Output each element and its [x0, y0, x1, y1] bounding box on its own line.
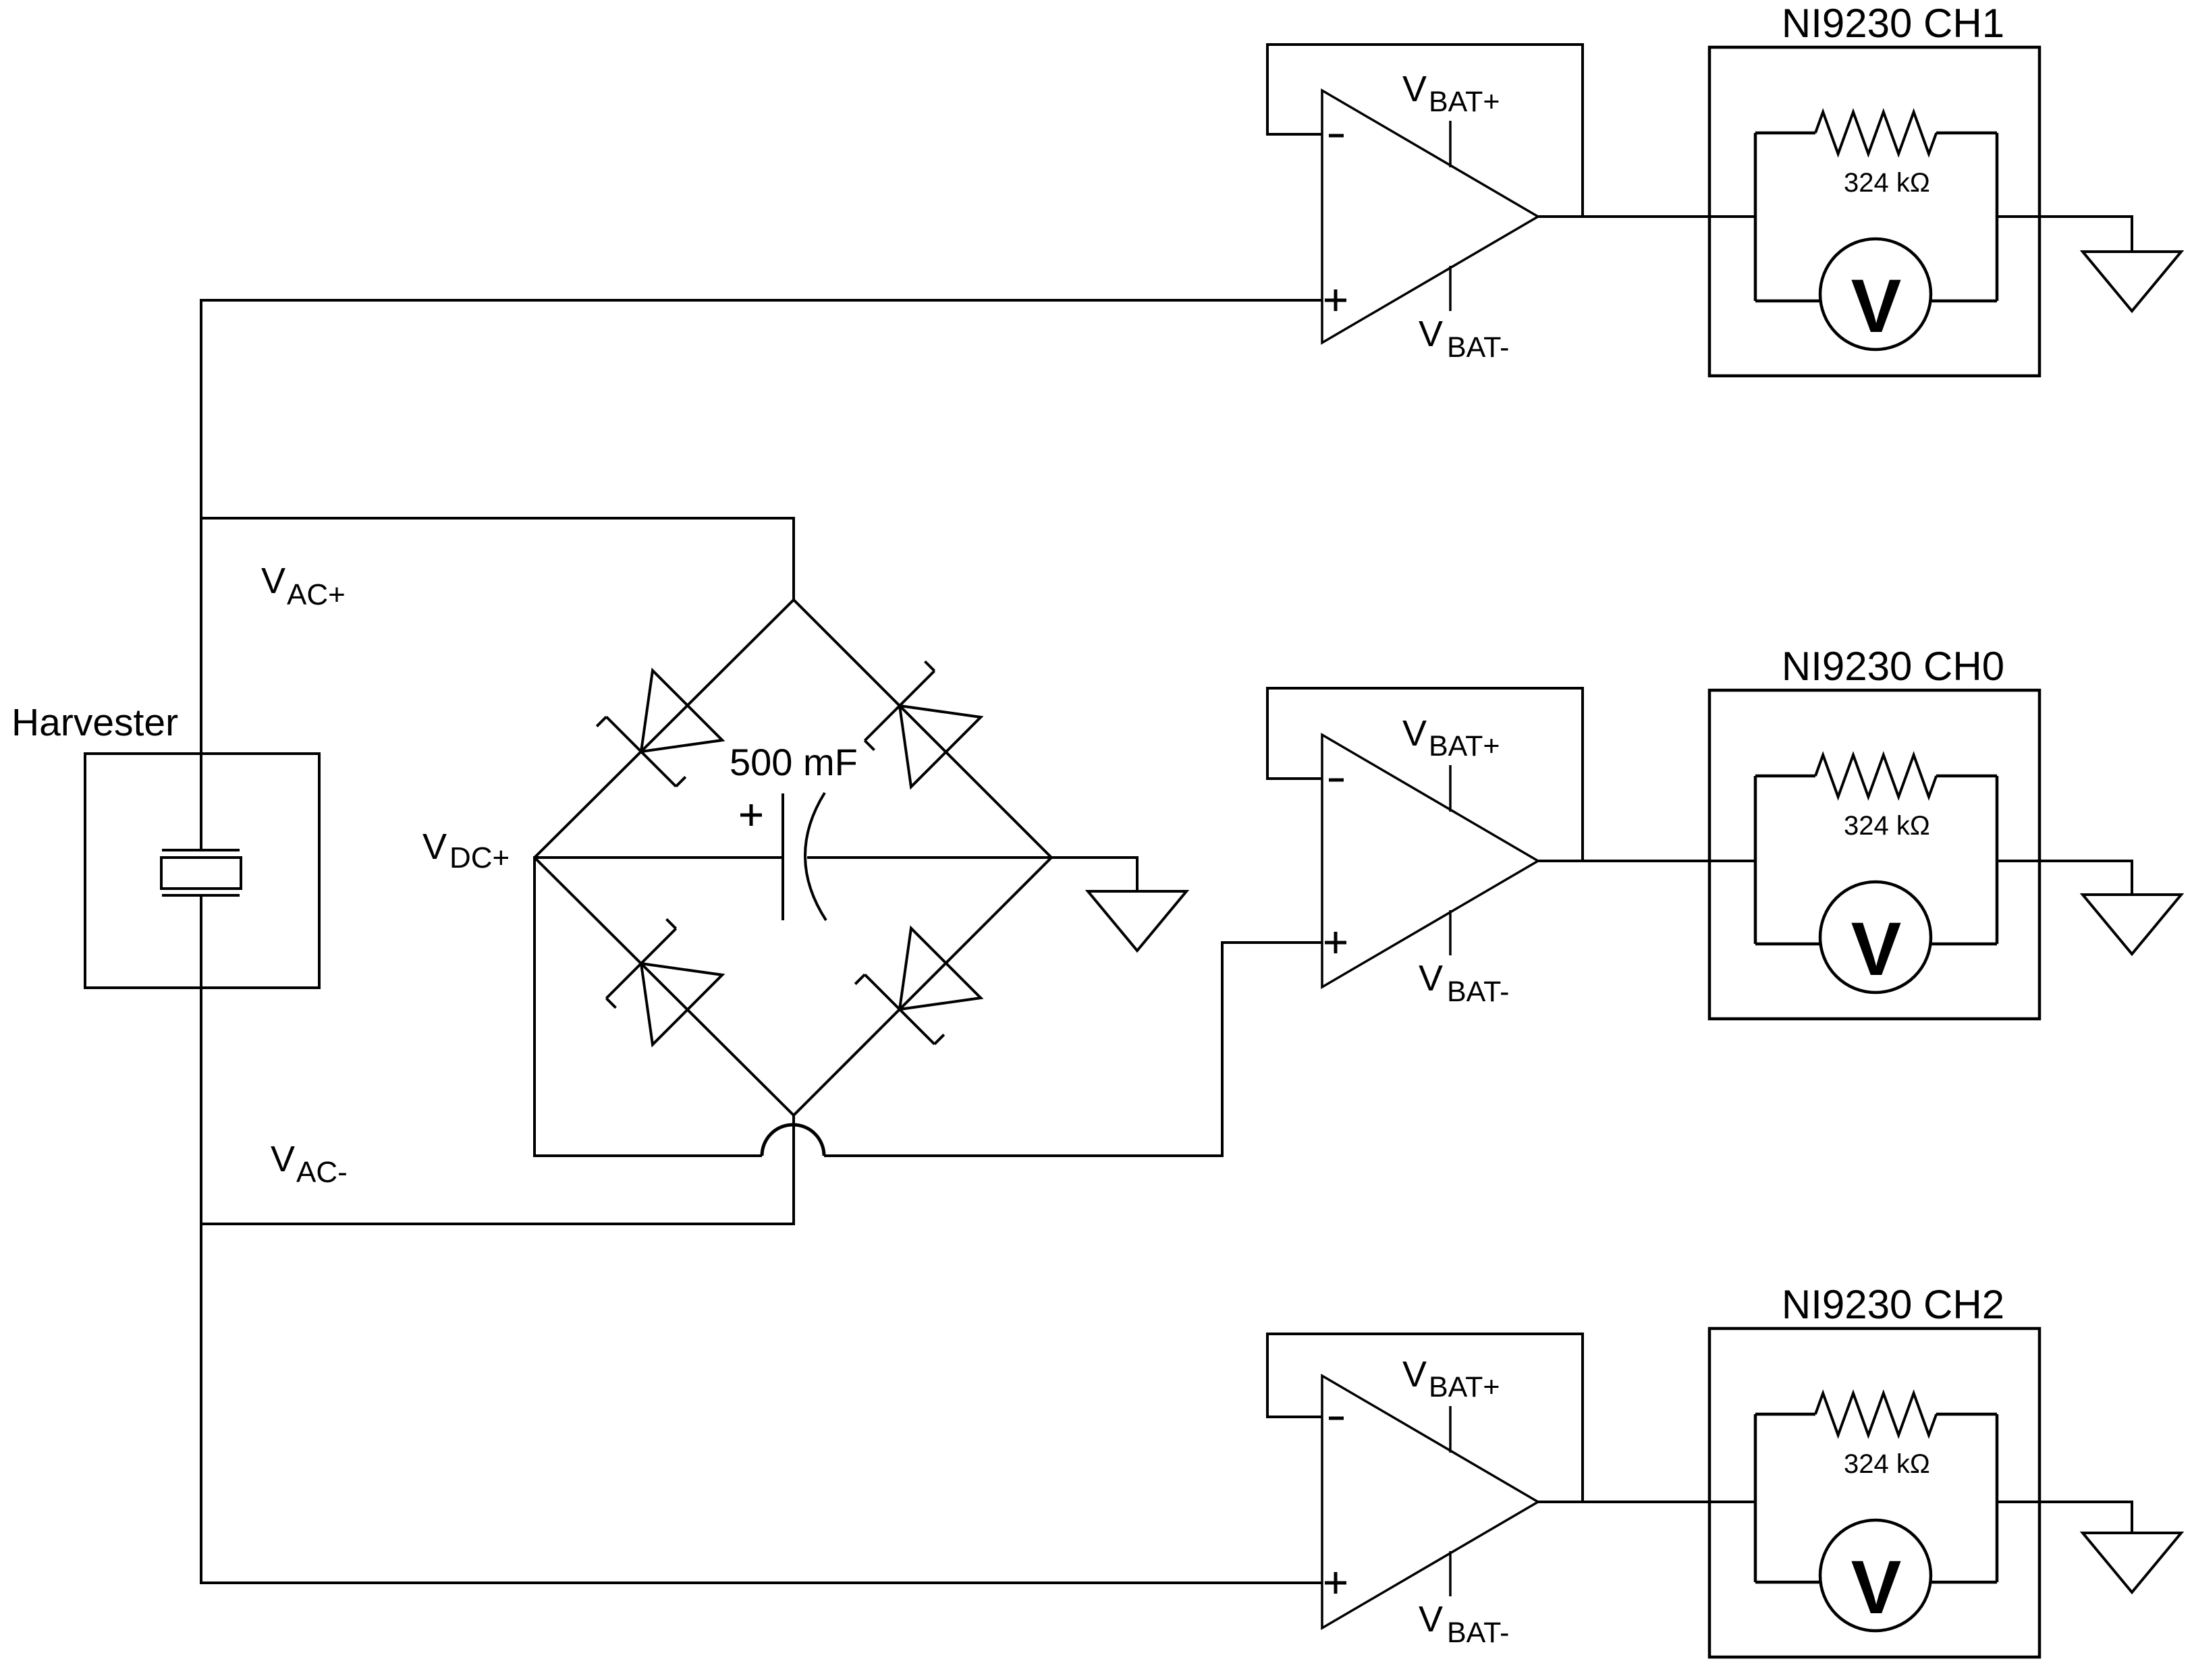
capacitor plus sign — [740, 814, 762, 817]
wire: U1 output — [1538, 215, 1755, 218]
capacitor C1 positive plate — [782, 793, 784, 920]
svg-text:V: V — [261, 561, 285, 601]
wire: NI9230 CH1 bottom branch right — [1930, 300, 1997, 303]
op-amp U3 VBAT- pin — [1449, 1551, 1452, 1596]
Harvester box — [85, 754, 319, 988]
wire: U3 inverting input — [1266, 1416, 1322, 1418]
op-amp U2 VBAT- pin — [1449, 910, 1452, 955]
wire: NI9230 CH0 output to ground — [1997, 860, 2133, 862]
svg-text:BAT+: BAT+ — [1429, 86, 1500, 118]
wire: NI9230 CH1 ground stub — [2131, 217, 2133, 252]
svg-text:324 kΩ: 324 kΩ — [1844, 1449, 1930, 1479]
op-amp U1 VBAT- pin — [1449, 266, 1452, 311]
wire: NI9230 CH0 ground stub — [2131, 861, 2133, 895]
wire: bridge diamond top-right arm — [794, 600, 1051, 858]
piezo element body — [161, 858, 241, 889]
op-amp U3 feedback loop — [1267, 1334, 1583, 1502]
svg-text:NI9230 CH0: NI9230 CH0 — [1782, 644, 2004, 689]
wire: drop from VAC+ branch to bridge top vertex — [792, 517, 795, 601]
op-amp U2 feedback loop — [1267, 688, 1583, 861]
ground symbol (NI9230 CH0) — [2083, 895, 2181, 954]
wire: NI9230 CH0 top branch left — [1755, 775, 1815, 778]
voltmeter V (NI9230 CH2) — [1820, 1520, 1931, 1631]
svg-text:V: V — [1402, 69, 1427, 109]
ground symbol near bridge — [1088, 891, 1186, 951]
wire: NI9230 CH2 top branch right — [1936, 1413, 1997, 1416]
wire: NI9230 CH0 bottom branch right — [1930, 943, 1997, 946]
wire: NI9230 CH1 bottom branch left — [1755, 300, 1821, 303]
wire: bridge right vertex to ground stub — [1051, 856, 1139, 859]
svg-text:NI9230 CH2: NI9230 CH2 — [1782, 1282, 2004, 1327]
op-amp U2 plus sign — [1325, 941, 1346, 945]
wire: bridge mid row left (VDC+ to capacitor) — [535, 856, 783, 859]
NI9230 CH2 inner node right — [1996, 1414, 1999, 1582]
wire: bridge diamond bottom-right arm — [794, 858, 1051, 1115]
wire: left column upper (VAC+ rail down to piezo) — [200, 299, 202, 849]
wire: bridge diamond bottom-left arm — [535, 858, 794, 1115]
svg-text:V: V — [1851, 264, 1902, 348]
wire: rail up to U2 + input level — [1221, 943, 1224, 1157]
zener diode D1 (top-left arm, points to VDC+) — [597, 671, 722, 796]
op-amp U1 triangle — [1322, 90, 1538, 343]
svg-text:AC-: AC- — [296, 1156, 348, 1189]
wire: VAC+ branch to bridge top — [201, 517, 794, 520]
piezo element (crystal) top plate — [162, 849, 240, 851]
svg-text:Harvester: Harvester — [11, 701, 178, 744]
wire: NI9230 CH0 bottom branch left — [1755, 943, 1821, 946]
svg-text:DC+: DC+ — [449, 841, 510, 874]
wire: VAC- branch from column to bridge bottom — [201, 1223, 794, 1225]
op-amp U2 triangle — [1322, 735, 1538, 987]
wire: ground stub down — [1136, 856, 1139, 891]
voltmeter V (NI9230 CH0) — [1820, 882, 1931, 992]
svg-text:V: V — [1402, 1354, 1427, 1395]
svg-text:BAT-: BAT- — [1447, 1617, 1509, 1649]
wire: VDC+ node down — [533, 856, 536, 1157]
op-amp U3 triangle — [1322, 1376, 1538, 1628]
capacitor C1 curved negative plate — [805, 793, 826, 920]
svg-text:V: V — [1402, 713, 1427, 754]
svg-text:V: V — [1419, 1599, 1443, 1640]
svg-text:V: V — [1419, 314, 1443, 354]
voltmeter V (NI9230 CH1) — [1820, 239, 1931, 349]
wire: U2 inverting input — [1266, 777, 1322, 780]
wire hop over bridge-bottom vertical — [762, 1125, 824, 1156]
wire: NI9230 CH1 top branch right — [1936, 132, 1997, 135]
wire: bridge mid row right (capacitor to right vertex) — [807, 856, 1051, 859]
svg-text:V: V — [1419, 958, 1443, 999]
wire: lower DC rail left of hop — [533, 1154, 762, 1157]
NI9230 CH2 outer box — [1709, 1328, 2039, 1657]
wire: lower DC rail right of hop — [824, 1154, 1224, 1157]
NI9230 CH0 inner node right — [1996, 776, 1999, 944]
op-amp U1 minus sign — [1329, 134, 1344, 138]
NI9230 CH2 inner node left — [1754, 1414, 1757, 1582]
wire: bridge bottom vertex down to VAC- branch — [792, 1114, 795, 1225]
ground symbol (NI9230 CH1) — [2083, 252, 2181, 311]
svg-text:324 kΩ: 324 kΩ — [1844, 811, 1930, 841]
ground symbol (NI9230 CH2) — [2083, 1533, 2181, 1592]
svg-text:AC+: AC+ — [287, 578, 346, 611]
op-amp U3 plus sign — [1325, 1581, 1346, 1585]
NI9230 CH1 outer box — [1709, 47, 2039, 376]
NI9230 CH0 outer box — [1709, 690, 2039, 1019]
wire: NI9230 CH2 ground stub — [2131, 1502, 2133, 1533]
resistor R (NI9230 CH2) — [1815, 1393, 1936, 1435]
op-amp U2 VBAT+ pin — [1449, 765, 1452, 812]
svg-text:V: V — [422, 827, 447, 867]
resistor R (NI9230 CH0) — [1815, 755, 1936, 797]
NI9230 CH1 inner node left — [1754, 133, 1757, 301]
wire: NI9230 CH2 bottom branch right — [1930, 1581, 1997, 1584]
piezo element bottom plate — [162, 894, 240, 897]
op-amp U1 feedback loop — [1267, 45, 1583, 217]
svg-text:BAT+: BAT+ — [1429, 730, 1500, 762]
wire: NI9230 CH2 top branch left — [1755, 1413, 1815, 1416]
op-amp U3 minus sign — [1329, 1417, 1344, 1420]
svg-text:BAT-: BAT- — [1447, 976, 1509, 1008]
op-amp U3 VBAT+ pin — [1449, 1406, 1452, 1453]
zener diode D2 (top-right arm, points to VAC+) — [855, 661, 981, 787]
wire: NI9230 CH2 output to ground — [1997, 1501, 2133, 1503]
wire: NI9230 CH1 output to ground — [1997, 215, 2133, 218]
wire: U3 output — [1538, 1501, 1755, 1503]
wire: to U2 + input — [1221, 941, 1322, 944]
svg-text:324 kΩ: 324 kΩ — [1844, 168, 1930, 198]
svg-text:BAT+: BAT+ — [1429, 1371, 1500, 1403]
op-amp U2 minus sign — [1329, 779, 1344, 782]
wire: bottom long wire to U3 + input — [200, 1581, 1322, 1584]
svg-text:500 mF: 500 mF — [730, 741, 858, 783]
wire: U2 output — [1538, 860, 1755, 862]
NI9230 CH0 inner node left — [1754, 776, 1757, 944]
zener diode D3 (bottom-left arm, points to VDC+) — [597, 919, 722, 1044]
op-amp U1 plus sign — [1325, 299, 1346, 302]
svg-text:V: V — [1851, 907, 1902, 991]
wire: left column lower (piezo to bottom wire) — [200, 895, 202, 1584]
svg-text:V: V — [271, 1139, 295, 1179]
svg-text:NI9230 CH1: NI9230 CH1 — [1782, 1, 2004, 46]
wire: NI9230 CH1 top branch left — [1755, 132, 1815, 135]
zener diode D4 (bottom-right arm, points to VAC-) — [855, 928, 981, 1054]
wire: U1 inverting input — [1266, 133, 1322, 136]
wire: NI9230 CH0 top branch right — [1936, 775, 1997, 778]
wire: bridge diamond top-left arm — [535, 600, 794, 858]
svg-text:V: V — [1851, 1545, 1902, 1629]
resistor R (NI9230 CH1) — [1815, 112, 1936, 154]
wire: top long wire to U1 + input — [200, 299, 1322, 302]
wire: NI9230 CH2 bottom branch left — [1755, 1581, 1821, 1584]
NI9230 CH1 inner node right — [1996, 133, 1999, 301]
svg-text:BAT-: BAT- — [1447, 331, 1509, 364]
op-amp U1 VBAT+ pin — [1449, 121, 1452, 167]
